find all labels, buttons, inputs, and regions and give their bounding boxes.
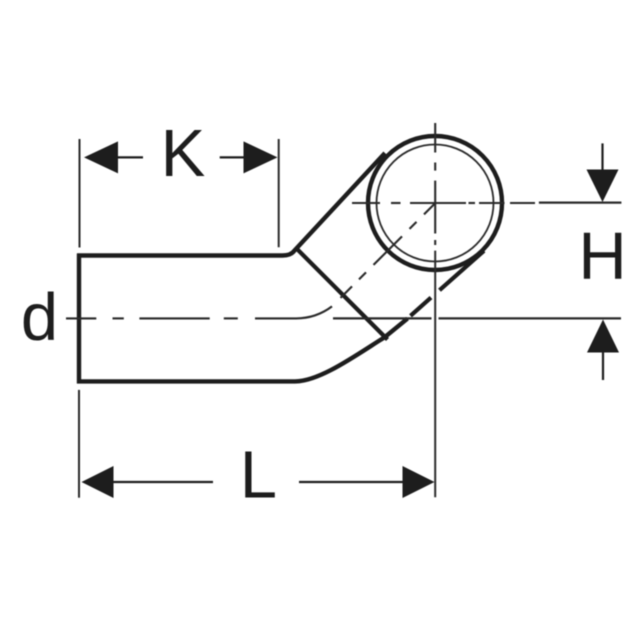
svg-text:K: K <box>161 116 206 191</box>
lower tangent dash 3 merging into socket <box>440 251 485 290</box>
L dimension extension line left <box>78 390 80 498</box>
socket horizontal centerline dash-dot <box>352 202 535 204</box>
L dimension right arrow <box>403 466 435 498</box>
K dimension extension line right <box>278 139 280 247</box>
L dimension left arrow <box>82 466 114 498</box>
H dimension upper arrow pointing down <box>587 170 619 203</box>
socket outer circle <box>368 136 502 270</box>
svg-text:d: d <box>21 280 58 355</box>
pipe left end opening <box>77 254 81 384</box>
K dimension extension line left <box>79 139 81 248</box>
bend axis diagonal dash-dot to socket center <box>341 202 437 298</box>
socket inner circle <box>377 145 494 262</box>
L dimension extension line right (solid below socket) <box>434 251 436 498</box>
H dimension lower arrow pointing up <box>587 320 619 353</box>
K dimension left arrow <box>84 141 118 173</box>
H dimension upper line <box>539 202 622 204</box>
pipe bottom outline with large bend arc and 45deg tangent <box>77 319 408 382</box>
svg-text:L: L <box>240 438 277 513</box>
K dimension right arrow <box>244 141 278 173</box>
pipe axis centerline horizontal dash-dot <box>66 306 332 318</box>
H dimension lower line <box>333 317 432 319</box>
svg-text:H: H <box>578 219 626 294</box>
inner edge line from top corner down-right <box>297 249 388 340</box>
lower tangent dash 2 <box>411 298 432 316</box>
pipe top outline with fillet and 45deg tangent to socket circle <box>77 153 385 256</box>
socket vertical centerline dash-dot <box>434 123 436 245</box>
